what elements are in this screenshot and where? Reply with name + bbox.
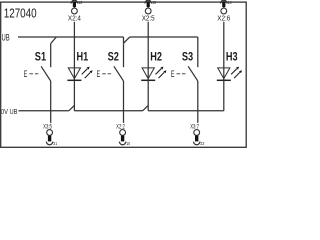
0V rail wire seg1 xyxy=(18,110,69,112)
LED lamp H3 xyxy=(217,49,242,80)
actuator dashed link for S2 xyxy=(102,73,111,75)
junction node S2/UB 45-deg stub xyxy=(124,37,130,43)
svg-text:S3: S3 xyxy=(182,49,194,63)
wire H3 bottom xyxy=(223,80,225,111)
svg-text:S1: S1 xyxy=(35,49,47,63)
svg-text:10: 10 xyxy=(126,141,130,146)
terminal X3:5 circle xyxy=(47,130,53,136)
border frame xyxy=(1,2,247,147)
plug pin 14 (top) xyxy=(221,0,232,8)
0V rail wire seg3 xyxy=(148,110,224,112)
wire S2 bottom xyxy=(123,81,125,123)
svg-text:21: 21 xyxy=(53,141,57,146)
UB rail wire xyxy=(18,36,124,38)
junction node S2/UB corner xyxy=(123,37,125,43)
svg-text:E: E xyxy=(171,69,175,79)
terminal X2:2 circle xyxy=(120,130,126,136)
terminal X2:4 circle xyxy=(72,8,78,14)
svg-text:E: E xyxy=(97,69,101,79)
svg-text:X2:6: X2:6 xyxy=(217,16,230,23)
wire S3 bottom xyxy=(197,81,199,123)
svg-text:12: 12 xyxy=(78,0,82,5)
svg-text:23: 23 xyxy=(200,141,204,146)
terminal X2:6 circle xyxy=(221,8,227,14)
svg-text:E: E xyxy=(24,69,28,79)
plug pin 21 (bottom) xyxy=(46,136,57,147)
wire S1 bottom xyxy=(50,81,52,123)
junction node S1/UB 45-deg stub xyxy=(51,37,57,44)
wire H1 bottom xyxy=(73,80,75,111)
net label 0V UB xyxy=(1,107,18,116)
plug pin 23 (bottom) xyxy=(194,136,205,147)
wire H2 bottom xyxy=(147,80,149,111)
0V rail wire seg2 xyxy=(74,110,142,112)
plug pin 10 (bottom) xyxy=(119,136,130,147)
svg-text:14: 14 xyxy=(228,0,232,5)
svg-text:H1: H1 xyxy=(77,49,89,63)
wire H1 top from terminal xyxy=(73,22,75,81)
junction node H1/0V 45-deg stub xyxy=(69,105,75,110)
svg-text:X2:4: X2:4 xyxy=(68,16,81,23)
actuator dashed link for S1 xyxy=(29,73,38,75)
switch S2 xyxy=(108,43,124,81)
junction node H2/0V 45-deg stub xyxy=(143,105,149,110)
svg-text:0V UB: 0V UB xyxy=(1,107,18,116)
plug pin 12 (top) xyxy=(71,0,82,8)
net label UB xyxy=(1,32,18,42)
svg-text:H2: H2 xyxy=(150,49,162,63)
plug pin 13 (top) xyxy=(145,0,156,8)
svg-text:X2:5: X2:5 xyxy=(142,16,155,23)
UB rail wire right segment xyxy=(130,36,198,38)
actuator dashed link for S3 xyxy=(177,73,186,75)
terminal X2:5 circle xyxy=(145,8,151,14)
wire H3 top from terminal xyxy=(223,22,225,81)
switch S1 xyxy=(35,44,51,81)
switch S3 xyxy=(182,37,198,81)
LED lamp H1 xyxy=(67,49,92,80)
svg-text:UB: UB xyxy=(2,32,10,42)
wire H2 top from terminal xyxy=(147,22,149,81)
svg-text:13: 13 xyxy=(152,0,156,5)
terminal X3:7 circle xyxy=(194,130,200,136)
svg-text:127040: 127040 xyxy=(4,6,37,21)
LED lamp H2 xyxy=(141,49,166,80)
svg-text:H3: H3 xyxy=(226,49,238,63)
svg-text:S2: S2 xyxy=(108,49,120,63)
